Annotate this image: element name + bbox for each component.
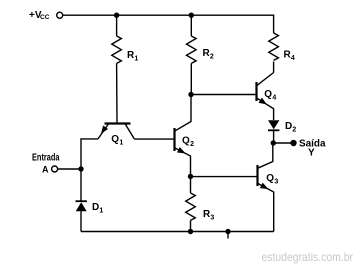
svg-text:4: 4 xyxy=(291,55,295,62)
junction node E2 (Q2 emitter / R3 / Q3 base) xyxy=(188,174,193,179)
svg-text:Q: Q xyxy=(264,89,272,100)
junction bottom rail / R3 xyxy=(188,229,193,234)
junction top rail / R2 xyxy=(189,13,194,18)
transistor Q2 xyxy=(175,95,195,177)
svg-text:1: 1 xyxy=(134,56,138,63)
resistor R4 xyxy=(269,33,295,62)
input terminal A xyxy=(32,152,60,174)
svg-text:Q: Q xyxy=(266,173,274,184)
wire R1 bottom to Q1 base xyxy=(116,63,118,123)
resistor R1 xyxy=(112,36,139,63)
transistor Q4 xyxy=(257,73,277,121)
power terminal +Vcc xyxy=(29,10,63,21)
svg-text:2: 2 xyxy=(292,127,296,134)
wire Q1 emitter to input node xyxy=(81,139,98,169)
wire input terminal to node A xyxy=(58,168,81,170)
wire D2 cathode to output node xyxy=(273,130,275,143)
wire top rail from +Vcc to R4 branch corner xyxy=(63,15,274,33)
wire R3 bottom to bottom rail xyxy=(190,220,192,231)
svg-text:A: A xyxy=(42,165,49,175)
svg-text:1: 1 xyxy=(119,140,123,147)
wire Q1 collector to Q2 base xyxy=(134,138,174,140)
wire R4 bottom to Q4 collector xyxy=(273,62,275,73)
svg-text:1: 1 xyxy=(99,208,103,215)
svg-text:CC: CC xyxy=(40,14,50,21)
wire bottom rail xyxy=(81,231,274,233)
svg-text:estudegratis.com.br: estudegratis.com.br xyxy=(262,250,354,264)
junction node A xyxy=(78,166,83,171)
junction top rail / R1 xyxy=(114,13,119,18)
diode D1 xyxy=(76,201,104,214)
wire R2 bottom to node B2 xyxy=(190,63,192,94)
output terminal Saida Y xyxy=(290,139,326,159)
junction node B2 (R2 / Q2 collector / Q4 base) xyxy=(188,92,193,97)
svg-text:Entrada: Entrada xyxy=(32,152,60,163)
svg-text:D: D xyxy=(285,121,292,132)
svg-text:3: 3 xyxy=(274,179,278,186)
wire node E2 to Q3 base xyxy=(191,176,258,178)
junction output node Y xyxy=(271,140,276,145)
wire output node to terminal xyxy=(273,142,293,144)
junction bottom rail ground stub xyxy=(225,229,230,239)
diode D2 xyxy=(268,120,296,133)
wire node B2 to Q4 base xyxy=(191,94,257,96)
svg-text:D: D xyxy=(92,202,99,213)
wire R1 top stub xyxy=(116,15,118,36)
svg-text:3: 3 xyxy=(210,215,214,222)
svg-text:Q: Q xyxy=(111,134,119,145)
svg-text:2: 2 xyxy=(190,141,194,148)
svg-text:Q: Q xyxy=(182,136,190,147)
wire node A down to D1 xyxy=(80,169,82,201)
transistor Q3 xyxy=(258,143,279,232)
svg-text:2: 2 xyxy=(210,54,214,61)
wire node E2 down to R3 xyxy=(190,177,192,194)
wire D1 anode to bottom rail xyxy=(80,211,82,231)
transistor Q1 xyxy=(98,124,134,147)
resistor R2 xyxy=(187,36,214,63)
svg-text:Y: Y xyxy=(308,148,315,159)
wire R2 top stub xyxy=(190,15,192,36)
resistor R3 xyxy=(186,193,215,222)
svg-text:4: 4 xyxy=(272,95,276,102)
